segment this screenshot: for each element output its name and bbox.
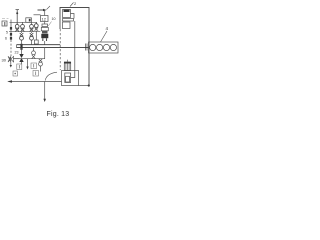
manifold line mid — [9, 31, 40, 33]
pump stage bar 1 — [42, 24, 48, 27]
return line — [13, 58, 45, 60]
wire tank to drain junction — [79, 85, 90, 87]
pump stage mid — [42, 31, 48, 34]
canister mid bar — [63, 19, 74, 22]
box 20 mark — [14, 73, 16, 75]
rail end tick — [16, 45, 18, 48]
dashed control line — [10, 40, 12, 56]
fuel tank T — [62, 71, 79, 86]
engine inlet ticks — [86, 44, 88, 51]
leader label 4 — [101, 31, 108, 42]
injector C — [30, 22, 34, 31]
leader label 2 — [70, 3, 74, 7]
cylinder 4 — [110, 44, 116, 50]
svg-text:30: 30 — [2, 58, 7, 63]
wire top vent line to engine — [60, 8, 89, 86]
valve F lower row — [30, 32, 34, 45]
svg-text:5: 5 — [6, 31, 8, 35]
wire pump to rail — [44, 41, 46, 45]
svg-text:10: 10 — [52, 17, 56, 21]
drop with damper G — [34, 31, 38, 44]
valve E lower row — [20, 32, 24, 45]
svg-text:4: 4 — [106, 26, 109, 31]
down line to arrow — [44, 82, 46, 101]
injector A — [15, 22, 19, 31]
component box 9 — [26, 18, 32, 23]
dashed enclosure line — [59, 29, 61, 70]
manifold line top — [10, 21, 38, 23]
chain blob 2 — [10, 33, 12, 36]
wire canister side — [71, 14, 75, 19]
in-tank pump inner — [66, 76, 70, 82]
wire top feed — [38, 9, 46, 11]
cylinder 2 — [97, 44, 103, 50]
leader curve 14 — [45, 72, 57, 80]
hp pump body dark — [41, 34, 48, 38]
fuel rail lower line — [17, 47, 89, 49]
faint label marks — [2, 18, 9, 20]
injector B — [21, 22, 25, 31]
component box 20 — [13, 71, 18, 76]
chain blob 3 — [10, 37, 12, 40]
wire rail drop right — [44, 48, 46, 59]
wire into box 12 — [44, 10, 46, 16]
canister C outer box — [63, 10, 71, 18]
box 8 mark — [33, 64, 35, 68]
sensor post top left — [16, 10, 20, 24]
pressure regulator X valve — [8, 56, 14, 67]
cylinder 1 — [90, 44, 96, 50]
svg-text:6: 6 — [5, 37, 7, 41]
component box 1 — [2, 21, 7, 26]
wire canister-to-tank — [71, 21, 75, 78]
lower valve I — [39, 59, 43, 72]
arrow left end — [7, 80, 12, 83]
wire box12 to pump — [44, 22, 46, 25]
arrow feed — [43, 9, 47, 11]
cylinder 3 — [103, 44, 109, 50]
box 31 mark — [35, 72, 37, 76]
fuel rail upper line — [17, 44, 61, 46]
pump hat stub — [67, 60, 69, 62]
pump legs — [43, 38, 47, 41]
wire side into box 12 — [34, 14, 41, 16]
component box 7 — [17, 64, 22, 70]
pump stage bar 2 — [41, 27, 48, 30]
box 1 mark — [4, 22, 6, 26]
pump hat cap — [64, 62, 71, 64]
sensor dot — [16, 12, 18, 14]
wire regulator to valve — [14, 58, 20, 60]
svg-text:23: 23 — [15, 51, 19, 55]
engine block 4 — [89, 42, 119, 53]
svg-text:Fig. 13: Fig. 13 — [47, 111, 70, 118]
injector D — [34, 22, 38, 30]
leader label 3 — [47, 6, 51, 10]
component box 31 — [33, 71, 39, 77]
in-tank pump module — [65, 73, 71, 83]
arrow bottom — [43, 99, 46, 102]
node junction dot — [88, 84, 90, 86]
box 7 mark — [18, 65, 20, 69]
pump hat hatch — [66, 62, 69, 70]
left sensor chain line — [10, 20, 12, 41]
component box 12 — [41, 16, 49, 22]
shutoff valve dark hourglass — [19, 48, 23, 64]
svg-text:12: 12 — [42, 17, 47, 22]
canister lower box — [63, 22, 71, 29]
mid valve H — [32, 48, 36, 59]
leader to 10 — [48, 22, 51, 27]
box 9 mark — [29, 19, 31, 22]
pump hat above tank — [64, 62, 70, 70]
canister inner element — [64, 10, 70, 13]
bottom supply line — [9, 81, 62, 83]
chain blob 1 — [10, 27, 12, 30]
component box 8 — [31, 63, 37, 69]
rail junction blob — [20, 44, 22, 50]
drop line with arrow — [26, 59, 28, 70]
svg-text:2: 2 — [74, 1, 77, 6]
